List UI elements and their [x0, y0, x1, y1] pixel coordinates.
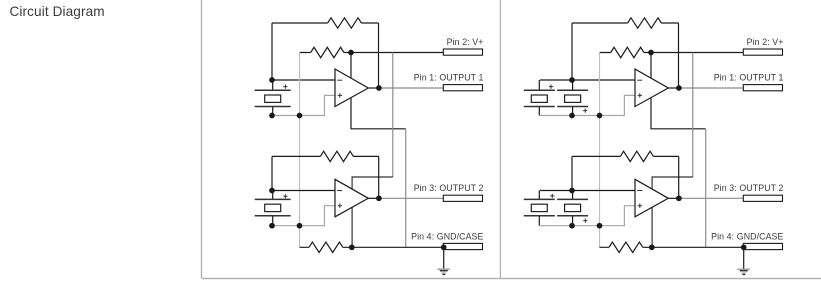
wire C21a bottom — [540, 115, 572, 117]
wire bias column down to GND rail — [705, 129, 707, 248]
node Pin4/ground (dot) — [741, 244, 747, 250]
capacitor C1 bottom stub — [272, 107, 274, 116]
node Pin4/ground (dot) — [441, 244, 447, 250]
capacitor C22a top plate — [524, 198, 555, 200]
panel divider middle — [499, 0, 501, 279]
resistor R22 — [600, 47, 651, 57]
capacitor C22a bottom stub — [538, 216, 540, 226]
capacitor C1 top stub — [272, 80, 274, 90]
wire U21 output stub — [668, 87, 679, 89]
wire inverting input (lower) — [572, 190, 635, 192]
capacitor C21b top plate — [557, 89, 588, 91]
resistor R23 (lower feedback) — [572, 151, 679, 161]
resistor R4 (GND rail) — [300, 242, 444, 252]
capacitor C2 bottom stub — [272, 216, 274, 226]
ground bar 2 — [740, 270, 748, 272]
capacitor C1 polarity + — [283, 85, 287, 89]
junction decoupling lower (dot) — [297, 223, 303, 229]
Pin 4 terminal box — [743, 243, 782, 249]
wire from R22 junction down through U21 to bias column — [651, 53, 706, 129]
capacitor C21a polarity + — [549, 85, 553, 89]
wire inverting input (upper) — [272, 79, 335, 81]
panel divider left — [201, 0, 203, 279]
capacitor C21b body — [565, 95, 581, 102]
capacitor C22b body — [565, 204, 581, 211]
wire bias column down to GND rail — [405, 129, 407, 248]
resistor R3 (lower feedback) — [272, 151, 379, 161]
wire R21 right leg to output — [678, 23, 680, 88]
capacitor C21a bottom stub — [538, 107, 540, 116]
node U2 output (dot) — [376, 195, 382, 201]
capacitor C22a bottom plate — [524, 215, 555, 217]
ground bar 3 — [441, 272, 446, 274]
junction GND rail (dot) — [349, 244, 355, 250]
wire V+ drop (gray) — [392, 53, 394, 178]
U22 plus sign — [638, 204, 642, 208]
wire U22 output to Pin 3 — [679, 197, 743, 199]
ground bar 1 — [437, 268, 450, 270]
capacitor C21a body — [531, 95, 547, 102]
wire non-inverting path (upper) — [272, 95, 335, 115]
capacitor C21b bottom stub — [572, 107, 574, 116]
capacitor C21b polarity + — [583, 109, 587, 113]
capacitor C1 bottom plate — [255, 106, 291, 108]
svg-text:Pin 3: OUTPUT 2: Pin 3: OUTPUT 2 — [414, 183, 484, 193]
panel bottom rule — [202, 278, 821, 280]
wire U2 output stub — [368, 197, 379, 199]
op-amp U2 — [335, 179, 368, 217]
ground bar 3 — [741, 272, 746, 274]
junction GND rail (dot) — [649, 244, 655, 250]
resistor R1 (top feedback) — [272, 18, 379, 28]
wire non-inverting path (lower) — [272, 206, 335, 226]
capacitor C22b bottom stub — [572, 216, 574, 226]
svg-text:Pin 4: GND/CASE: Pin 4: GND/CASE — [411, 231, 483, 241]
node cap bottom lower (dot) — [269, 223, 275, 229]
Pin 1 terminal box — [443, 85, 482, 91]
ground bar 4 — [742, 273, 745, 275]
resistor R21 (top feedback) — [572, 18, 679, 28]
op-amp U22 — [635, 179, 668, 217]
wire to C21a (upper left cap) — [540, 79, 572, 81]
Pin 3 terminal box — [443, 195, 482, 201]
node inv-in upper (dot) — [269, 77, 275, 83]
ground stem — [443, 247, 445, 268]
U1 minus sign — [337, 79, 342, 81]
U2 plus sign — [338, 204, 342, 208]
node U2 output (dot) — [676, 195, 682, 201]
svg-text:Pin 2: V+: Pin 2: V+ — [447, 37, 484, 47]
svg-text:Pin 1: OUTPUT 1: Pin 1: OUTPUT 1 — [714, 73, 784, 83]
capacitor C22b top stub — [572, 191, 574, 200]
ground bar 4 — [442, 273, 445, 275]
wire V+ rail to Pin 2 — [351, 52, 443, 54]
U2 minus sign — [337, 190, 342, 192]
Pin 2 terminal box — [743, 49, 782, 55]
wire U1 output to Pin 1 — [379, 87, 443, 89]
wire bias to lower stage — [652, 177, 693, 247]
node cap bottom upper (dot) — [269, 113, 275, 119]
capacitor C21a top stub — [538, 80, 540, 90]
ground bar 2 — [440, 270, 448, 272]
op-amp U1 — [335, 69, 368, 107]
Pin 2 terminal box — [443, 49, 482, 55]
capacitor C21a top plate — [524, 89, 555, 91]
wire R1 right leg to output — [378, 23, 380, 88]
junction decoupling lower (dot) — [597, 223, 603, 229]
wire bias to lower stage — [352, 177, 393, 247]
wire R23 right leg to output — [678, 156, 680, 198]
wire non-inverting path (lower) — [572, 206, 635, 226]
Pin 1 terminal box — [743, 85, 782, 91]
wire inverting input (upper) — [572, 79, 635, 81]
wire decoupling column (light) — [299, 53, 301, 248]
U1 plus sign — [338, 93, 342, 97]
capacitor C22a polarity + — [550, 194, 554, 198]
wire R3 left leg — [271, 156, 273, 190]
ground stem — [743, 247, 745, 268]
wire R21 left leg — [571, 23, 573, 80]
resistor R24 (GND rail) — [600, 242, 744, 252]
wire V+ drop (gray) — [692, 53, 694, 178]
capacitor C1 body — [265, 95, 281, 102]
capacitor C21b bottom plate — [557, 106, 588, 108]
capacitor C1 top plate — [255, 89, 291, 91]
node inv-in lower (dot) — [269, 188, 275, 194]
U22 minus sign — [637, 190, 642, 192]
svg-text:Circuit Diagram: Circuit Diagram — [10, 4, 105, 19]
node U1 output (dot) — [676, 85, 682, 91]
wire U2 output to Pin 3 — [379, 197, 443, 199]
node inv-in upper (dot) — [569, 77, 575, 83]
wire R3 right leg to output — [378, 156, 380, 198]
wire C22a bottom — [540, 225, 572, 227]
wire U22 output stub — [668, 197, 679, 199]
node V+ junction (dot) — [348, 50, 354, 56]
capacitor C21b top stub — [572, 80, 574, 90]
junction decoupling upper (dot) — [597, 113, 603, 119]
resistor R2 — [300, 47, 351, 57]
op-amp U21 — [635, 69, 668, 107]
junction decoupling upper (dot) — [297, 113, 303, 119]
capacitor C22a body — [531, 204, 547, 211]
wire decoupling column (light) — [599, 53, 601, 248]
wire U1 output stub — [368, 87, 379, 89]
U21 minus sign — [637, 79, 642, 81]
ground bar 1 — [737, 268, 750, 270]
Pin 3 terminal box — [743, 195, 782, 201]
svg-text:Pin 1: OUTPUT 1: Pin 1: OUTPUT 1 — [414, 73, 484, 83]
capacitor C2 top stub — [272, 191, 274, 200]
wire to C22a (lower left cap) — [540, 190, 572, 192]
Pin 4 terminal box — [443, 243, 482, 249]
svg-text:Pin 3: OUTPUT 2: Pin 3: OUTPUT 2 — [714, 183, 784, 193]
capacitor C22b top plate — [557, 198, 588, 200]
capacitor C22b bottom plate — [557, 215, 588, 217]
U21 plus sign — [638, 93, 642, 97]
capacitor C2 body — [265, 204, 281, 211]
wire U21 output to Pin 1 — [679, 87, 743, 89]
capacitor C2 top plate — [255, 198, 291, 200]
capacitor C21a bottom plate — [524, 106, 555, 108]
wire inverting input (lower) — [272, 190, 335, 192]
wire non-inverting path (upper) — [572, 95, 635, 115]
wire V+ rail to Pin 2 — [651, 52, 743, 54]
capacitor C2 polarity + — [283, 194, 287, 198]
capacitor C2 bottom plate — [255, 215, 291, 217]
node V+ junction (dot) — [648, 50, 654, 56]
node cap bottom lower (dot) — [569, 223, 575, 229]
svg-text:Pin 2: V+: Pin 2: V+ — [747, 37, 784, 47]
svg-text:Pin 4: GND/CASE: Pin 4: GND/CASE — [711, 231, 783, 241]
capacitor C22b polarity + — [583, 219, 587, 223]
wire R23 left leg — [571, 156, 573, 190]
node inv-in lower (dot) — [569, 188, 575, 194]
wire R1 left leg — [271, 23, 273, 80]
node U1 output (dot) — [376, 85, 382, 91]
node cap bottom upper (dot) — [569, 113, 575, 119]
capacitor C22a top stub — [538, 191, 540, 200]
wire from R2 junction down through U1 to bias column — [351, 53, 406, 129]
